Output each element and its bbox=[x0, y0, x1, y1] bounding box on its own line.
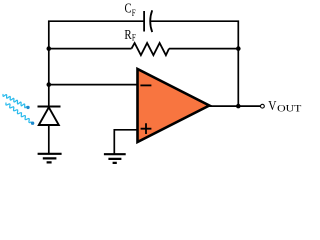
ground center symbol bbox=[104, 154, 126, 163]
photon arrow 1 bbox=[3, 95, 27, 108]
photon arrow 1 head dot bbox=[26, 106, 29, 109]
resistor RF zigzag bbox=[132, 43, 170, 55]
node junction RF left bbox=[47, 46, 52, 51]
node junction RF right bbox=[236, 46, 241, 51]
svg-text:C: C bbox=[125, 2, 132, 17]
wire output bbox=[209, 105, 261, 107]
photon arrow 2 head dot bbox=[31, 122, 34, 125]
wire noninverting input to ground bbox=[114, 130, 137, 154]
op-amp plus label bbox=[141, 123, 152, 134]
capacitor C1 right curved plate bbox=[150, 10, 152, 32]
wire photodiode to ground bbox=[48, 125, 50, 154]
wire RF left lead bbox=[49, 48, 132, 50]
svg-text:F: F bbox=[132, 34, 136, 44]
photodiode D1 triangle bbox=[39, 107, 59, 125]
capacitor C1 left plate bbox=[143, 11, 145, 32]
node junction inverting input bbox=[47, 82, 52, 87]
wire RF right lead bbox=[169, 48, 238, 50]
svg-text:V: V bbox=[268, 99, 276, 114]
svg-text:OUT: OUT bbox=[277, 105, 301, 115]
photon arrow 2 bbox=[6, 103, 31, 123]
svg-text:F: F bbox=[132, 9, 136, 19]
node junction output bbox=[236, 104, 241, 109]
wire from capacitor to right vertical bbox=[151, 21, 239, 106]
wire top feedback loop left segment bbox=[49, 21, 144, 106]
photodiode D1 cathode bar bbox=[38, 106, 61, 108]
op-amp U1 body bbox=[138, 69, 210, 142]
ground left symbol bbox=[38, 154, 62, 163]
terminal VOUT open circle bbox=[261, 104, 265, 108]
op-amp minus label bbox=[140, 84, 151, 86]
wire inverting input bbox=[49, 84, 137, 86]
